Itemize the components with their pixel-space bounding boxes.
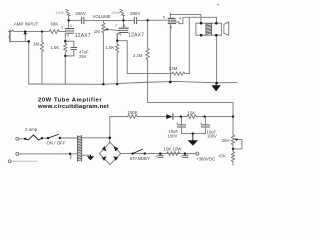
svg-text:25V: 25V xyxy=(79,54,87,59)
svg-text:20W Tube Amplifier: 20W Tube Amplifier xyxy=(38,97,102,103)
svg-text:9: 9 xyxy=(170,24,172,29)
svg-text:2.2M: 2.2M xyxy=(133,53,143,58)
svg-text:100V: 100V xyxy=(168,133,178,138)
svg-text:3: 3 xyxy=(67,33,69,38)
svg-text:7: 7 xyxy=(115,23,117,28)
svg-text:2: 2 xyxy=(61,25,63,30)
svg-text:2 amp: 2 amp xyxy=(25,127,38,132)
svg-text:1M: 1M xyxy=(33,42,39,47)
svg-text:4: 4 xyxy=(179,16,182,21)
svg-text:1.5K: 1.5K xyxy=(51,45,60,50)
svg-text:AMP INPUT: AMP INPUT xyxy=(14,21,39,26)
svg-text:280V: 280V xyxy=(76,11,86,16)
svg-text:6: 6 xyxy=(123,23,125,28)
svg-text:VOLUME: VOLUME xyxy=(93,14,111,19)
svg-text:280V: 280V xyxy=(130,11,140,16)
svg-text:www.circuitdiagram.net: www.circuitdiagram.net xyxy=(37,104,109,110)
svg-text:3: 3 xyxy=(169,11,171,16)
svg-text:8: 8 xyxy=(119,31,121,36)
svg-text:22M: 22M xyxy=(169,66,178,71)
svg-text:12AX7: 12AX7 xyxy=(75,33,91,39)
svg-text:100K: 100K xyxy=(56,10,66,15)
svg-text:100K: 100K xyxy=(111,10,121,15)
svg-text:10K 10W: 10K 10W xyxy=(164,146,183,151)
svg-text:47K: 47K xyxy=(219,154,227,159)
svg-text:150K: 150K xyxy=(128,110,138,115)
svg-text:100V: 100V xyxy=(207,134,217,139)
svg-text:STANDBY: STANDBY xyxy=(130,156,150,161)
svg-text:15K: 15K xyxy=(188,111,196,116)
svg-text:5: 5 xyxy=(163,14,165,19)
svg-text:1: 1 xyxy=(70,23,72,28)
svg-text:25H: 25H xyxy=(222,138,230,143)
svg-text:ON / OFF: ON / OFF xyxy=(47,141,66,146)
svg-text:+380VDC: +380VDC xyxy=(196,156,215,161)
svg-text:68K: 68K xyxy=(51,22,59,27)
svg-text:12AX7: 12AX7 xyxy=(128,33,144,39)
svg-text:1.5K: 1.5K xyxy=(106,45,115,50)
svg-text:1M: 1M xyxy=(94,29,100,34)
